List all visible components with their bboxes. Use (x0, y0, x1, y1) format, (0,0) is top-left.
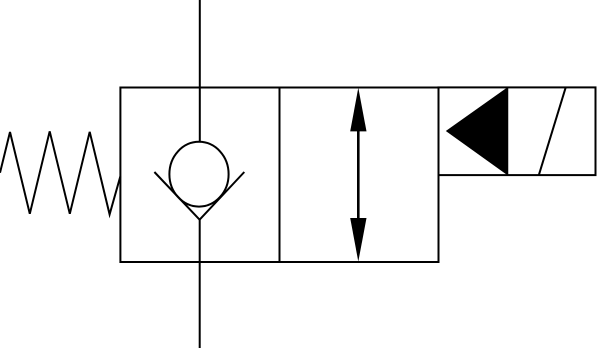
solenoid box (439, 87, 596, 175)
spring (0, 131, 120, 214)
solenoid armature (filled triangle) (447, 88, 507, 174)
valve body position 1 (left cell) (120, 88, 279, 263)
solenoid proportional slash (539, 87, 566, 175)
flow arrow (double-headed) (350, 88, 366, 262)
check valve poppet (circle) (169, 142, 228, 207)
valve body position 2 (right cell) (280, 88, 439, 263)
wire: top port P (199, 0, 201, 142)
check valve seat (V) (154, 172, 244, 220)
wire: bottom port T (199, 219, 201, 348)
